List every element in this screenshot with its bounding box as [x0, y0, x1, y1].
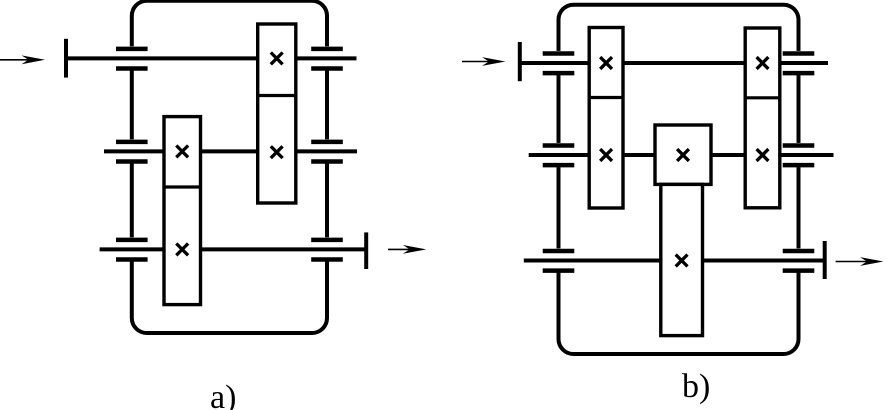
intermediate shaft II (diagram a)	[104, 149, 357, 153]
gear mark x, shaft II right block (diagram b)	[757, 149, 769, 161]
gear mark x, shaft I left block (diagram b)	[600, 57, 612, 69]
intermediate shaft II (diagram b)	[529, 153, 834, 157]
output shaft III (diagram b)	[524, 259, 824, 263]
gear mark x, shaft II left (diagram a)	[176, 146, 188, 158]
bearing b left, input shaft	[543, 51, 575, 75]
input shaft end bar (diagram b)	[518, 42, 522, 81]
output arrow (diagram a)	[388, 245, 426, 254]
gear mark x, shaft III (diagram a)	[176, 244, 188, 256]
input arrow (diagram a)	[0, 55, 45, 64]
gear mark x, shaft III centre (diagram b)	[676, 255, 688, 267]
right gear block divider (diagram b)	[745, 96, 780, 99]
bearing a left, output shaft	[116, 237, 148, 261]
centre gear block on shaft III (diagram b)	[661, 184, 703, 335]
output shaft III (diagram a)	[100, 247, 366, 251]
gear mark x, shaft I (diagram a)	[271, 53, 283, 65]
gear mark x, shaft II centre (diagram b)	[677, 149, 689, 161]
input shaft end bar (diagram a)	[64, 39, 68, 78]
bearing a right, intermediate shaft	[311, 139, 343, 163]
bearing b left, intermediate shaft	[543, 143, 575, 167]
gear block on shafts II-III (diagram a)	[164, 117, 201, 305]
left gear block, shafts I-II (diagram b)	[589, 28, 623, 209]
gearbox housing (diagram b)	[559, 5, 799, 354]
bearing b right, intermediate shaft	[783, 143, 815, 167]
svg-text:b): b)	[682, 368, 710, 405]
bearing a right, output shaft	[311, 237, 343, 261]
bearing b right, output shaft	[783, 248, 815, 272]
gearbox housing (diagram a)	[132, 1, 327, 333]
output arrow (diagram b)	[836, 257, 884, 266]
output shaft end bar (diagram b)	[823, 241, 827, 279]
gear mark x, shaft II right (diagram a)	[271, 146, 283, 158]
gear mark x, shaft I right block (diagram b)	[757, 57, 769, 69]
bearing a left, input shaft	[116, 46, 148, 70]
centre gear on shaft II (diagram b)	[655, 125, 711, 184]
left gear block divider (diagram b)	[589, 96, 623, 99]
gear block on shafts I-II (diagram a)	[258, 24, 296, 203]
bearing a left, intermediate shaft	[116, 139, 148, 163]
output shaft end bar (diagram a)	[364, 232, 368, 269]
input arrow (diagram b)	[462, 57, 506, 66]
bearing a right, input shaft	[311, 46, 343, 70]
bearing b right, input shaft	[783, 51, 815, 75]
gear block divider (diagram a right block)	[258, 94, 296, 97]
gear block divider (diagram a left block)	[164, 185, 201, 188]
right gear block, shafts I-II (diagram b)	[745, 28, 780, 208]
input shaft I (diagram b)	[520, 61, 828, 65]
gear mark x, shaft II left block (diagram b)	[600, 149, 612, 161]
input shaft I (diagram a)	[66, 56, 357, 60]
svg-text:a): a)	[210, 379, 236, 410]
bearing b left, output shaft	[543, 248, 575, 272]
